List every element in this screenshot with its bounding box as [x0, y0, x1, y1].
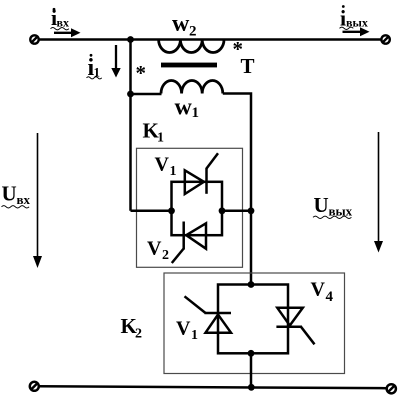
label U_vyx — [313, 193, 353, 219]
terminal top-right output — [381, 35, 389, 43]
svg-text:w: w — [172, 11, 190, 37]
svg-text:4: 4 — [326, 289, 334, 305]
svg-text:1: 1 — [192, 105, 200, 121]
terminal bottom-right — [387, 384, 396, 393]
label V1 K1 — [155, 154, 177, 180]
label V4 K2 — [311, 279, 334, 305]
svg-text:1: 1 — [170, 164, 177, 179]
winding w1 — [161, 81, 223, 94]
svg-text:U: U — [2, 182, 17, 206]
wire w1 left connect — [131, 93, 162, 96]
node K2 bottom — [248, 350, 255, 357]
arrow i_vyx — [343, 27, 370, 36]
wire K1 loop — [172, 182, 223, 235]
thyristor V4 in K2 — [276, 308, 314, 345]
svg-text:V: V — [147, 238, 162, 260]
node bottom rail junction — [248, 384, 255, 391]
svg-text:*: * — [136, 61, 147, 85]
terminal bottom-left — [30, 382, 39, 391]
arrow i1 down — [111, 45, 120, 78]
label w2 — [172, 11, 197, 40]
wire K1 right lead — [222, 210, 251, 213]
label i_vyx — [340, 5, 368, 30]
wire K1 left lead — [131, 210, 172, 213]
wire K2 loop — [218, 285, 288, 354]
thyristor V1 in K2 — [185, 296, 232, 332]
box K1 — [137, 148, 243, 267]
svg-text:V: V — [176, 318, 191, 340]
wire top rail — [39, 38, 382, 41]
arrow i_vx — [54, 28, 81, 37]
label K2 — [121, 314, 143, 342]
label U_vx — [2, 182, 31, 209]
svg-text:V: V — [311, 279, 326, 301]
svg-text:2: 2 — [162, 248, 169, 263]
svg-text:w: w — [175, 95, 193, 121]
wire bottom rail — [38, 386, 387, 388]
label i1 — [87, 54, 102, 81]
node K2 top — [248, 281, 255, 288]
node K1 right — [219, 207, 226, 214]
arrow U_vyx down — [374, 132, 383, 253]
wire left branch vertical — [129, 40, 132, 211]
svg-text:1: 1 — [191, 328, 198, 343]
svg-text:U: U — [314, 193, 329, 217]
node w1 left junction — [127, 91, 134, 98]
svg-text:вх: вх — [17, 192, 31, 207]
svg-text:вых: вых — [329, 204, 353, 219]
node K1 left — [168, 207, 175, 214]
box K2 — [164, 273, 345, 374]
transformer core — [161, 63, 217, 68]
svg-text:V: V — [155, 154, 170, 176]
terminal top-left input — [30, 35, 38, 43]
wire w1 right connect — [223, 94, 251, 285]
label V2 K1 — [147, 238, 169, 264]
label K1 — [143, 119, 165, 146]
svg-text:T: T — [241, 54, 255, 78]
node junction top rail — [127, 36, 134, 43]
svg-text:2: 2 — [189, 24, 197, 40]
svg-text:2: 2 — [135, 327, 142, 342]
svg-text:1: 1 — [157, 131, 164, 146]
node right bus junction — [248, 207, 255, 214]
label w1 — [175, 95, 200, 122]
wire K2 bottom lead — [250, 353, 253, 387]
thyristor V1 in K1 — [185, 153, 218, 194]
label V1 K2 — [176, 318, 198, 344]
label i_vx — [51, 5, 69, 30]
thyristor V2 in K1 — [172, 222, 206, 264]
arrow U_vx down — [33, 133, 42, 268]
winding w2 — [159, 40, 224, 53]
